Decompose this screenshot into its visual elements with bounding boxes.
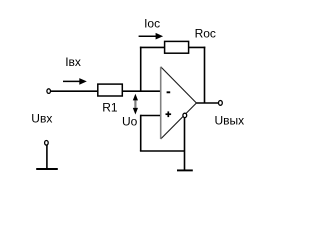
svg-text:R1: R1 bbox=[102, 101, 118, 115]
svg-text:Uвых: Uвых bbox=[215, 114, 245, 128]
svg-text:Roc: Roc bbox=[195, 27, 216, 41]
svg-text:Uo: Uo bbox=[122, 115, 138, 129]
svg-text:Ioc: Ioc bbox=[144, 17, 160, 31]
svg-text:Uвх: Uвх bbox=[31, 112, 52, 126]
svg-text:Iвх: Iвх bbox=[65, 55, 81, 69]
